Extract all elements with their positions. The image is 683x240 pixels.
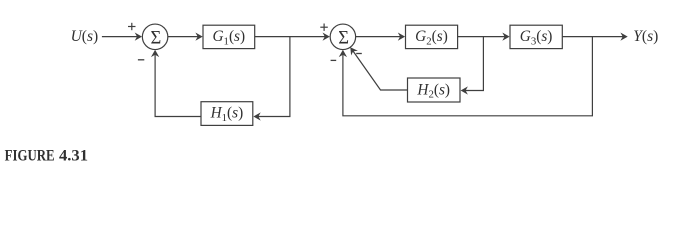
svg-text:H1(s): H1(s): [210, 105, 244, 124]
minus sign at summer S2 inner feedback input: [356, 53, 362, 55]
wire block G2 to block G3: [458, 32, 510, 40]
wire summer S1 to block G1: [168, 32, 203, 40]
block G3: [510, 25, 562, 48]
svg-text:U(s): U(s): [71, 28, 99, 45]
block G2: [406, 25, 458, 48]
summing junction S1: [142, 24, 168, 50]
block H1: [201, 102, 253, 126]
svg-text:G1(s): G1(s): [212, 28, 245, 47]
wire summer S2 to block G2: [356, 32, 405, 40]
wire block G1 to summer S2: [255, 32, 330, 40]
summing junction S2: [330, 24, 356, 50]
wire U(s) to summer S1: [102, 32, 142, 40]
node U(s) input label: [71, 28, 99, 45]
svg-text:G2(s): G2(s): [415, 28, 448, 47]
caption FIGURE 4.31: [5, 147, 88, 165]
wire H1 output to summer S1: [151, 50, 201, 117]
svg-text:FIGURE: FIGURE: [5, 147, 55, 163]
wire H2 output diagonal to summer S2: [350, 47, 407, 90]
wire block G3 to output Y(s): [562, 32, 627, 40]
svg-text:Σ: Σ: [151, 29, 162, 49]
block H2: [408, 78, 461, 102]
svg-text:Σ: Σ: [338, 29, 349, 49]
plus sign at summer S1 input: [128, 23, 136, 30]
minus sign at summer S1 feedback input: [138, 59, 144, 61]
minus sign at summer S2 lower feedback input: [331, 59, 337, 61]
svg-text:Y(s): Y(s): [633, 28, 658, 45]
wire outer feedback from output node to summer S2: [339, 37, 593, 116]
svg-text:H2(s): H2(s): [416, 81, 450, 100]
block G1: [203, 25, 255, 48]
svg-text:4.31: 4.31: [59, 147, 88, 163]
wire branch after G1 down to H1 input: [253, 37, 290, 121]
wire branch after G2 down to H2 input: [461, 37, 484, 95]
plus sign at summer S2 input: [320, 24, 328, 31]
node Y(s) output label: [633, 28, 658, 45]
svg-text:G3(s): G3(s): [520, 28, 553, 47]
